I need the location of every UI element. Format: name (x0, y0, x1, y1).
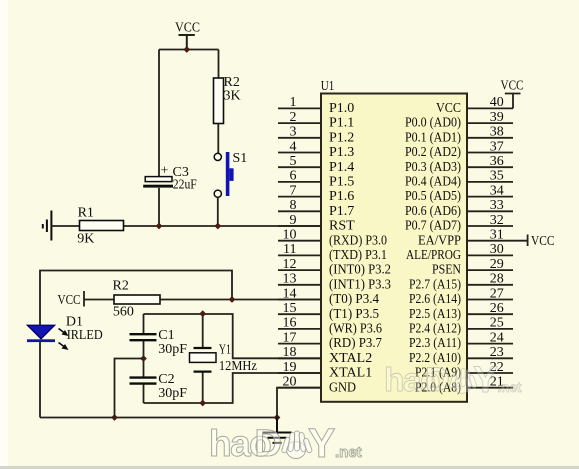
svg-text:+: + (161, 164, 169, 179)
crystal Y1 12MHz (202, 314, 204, 403)
svg-text:EA/VPP: EA/VPP (418, 233, 461, 248)
svg-text:P0.5 (AD5): P0.5 (AD5) (405, 189, 461, 204)
svg-text:4: 4 (290, 139, 297, 154)
svg-text:P2.4 (A12): P2.4 (A12) (409, 322, 461, 337)
resistor R2 560 (114, 295, 160, 304)
svg-text:XTAL1: XTAL1 (329, 366, 372, 381)
node RST/S1 junction (214, 223, 221, 230)
svg-text:P0.1 (AD1): P0.1 (AD1) (405, 130, 461, 145)
svg-text:(T0) P3.4: (T0) P3.4 (329, 292, 379, 307)
svg-text:30pF: 30pF (158, 386, 187, 401)
power VCC port (left) (84, 291, 114, 307)
wire bottom ground rail (40, 417, 277, 419)
svg-text:16: 16 (283, 316, 297, 331)
svg-text:(INT1) P3.3: (INT1) P3.3 (329, 277, 391, 292)
svg-text:560: 560 (113, 304, 134, 319)
svg-text:2: 2 (290, 110, 297, 125)
switch S1 (214, 153, 221, 160)
wire R2(560) to pin14 (160, 299, 321, 301)
svg-text:6: 6 (290, 169, 297, 184)
svg-text:24: 24 (490, 330, 504, 345)
svg-text:P2.3 (A11): P2.3 (A11) (409, 336, 461, 351)
wire C1/C2 midpoint to ground rail (115, 359, 144, 418)
svg-text:(RXD) P3.0: (RXD) P3.0 (329, 233, 387, 248)
svg-text:17: 17 (283, 330, 297, 345)
svg-text:P0.4 (AD4): P0.4 (AD4) (405, 175, 461, 190)
svg-text:5: 5 (290, 154, 297, 169)
node VCC top junction (183, 46, 190, 53)
wire VCC top horizontal (159, 49, 219, 51)
U1 right pin stubs 40-21 (467, 108, 513, 387)
node Y1 top junction (199, 310, 206, 317)
svg-text:XTAL2: XTAL2 (329, 351, 372, 366)
capacitor C3 22uF (158, 188, 160, 226)
svg-text:PSEN: PSEN (432, 263, 461, 278)
svg-text:IRLED: IRLED (67, 328, 103, 343)
svg-text:34: 34 (490, 183, 504, 198)
svg-text:29: 29 (490, 257, 504, 272)
svg-text:VCC: VCC (501, 79, 524, 94)
node Y1 bottom junction (199, 400, 206, 407)
node 560/LED-loop junction (229, 296, 236, 303)
svg-text:1: 1 (290, 95, 297, 110)
svg-text:GND: GND (329, 380, 356, 395)
svg-text:P2.5 (A13): P2.5 (A13) (409, 307, 461, 322)
svg-text:P1.1: P1.1 (329, 116, 354, 131)
svg-text:P1.5: P1.5 (329, 175, 354, 190)
svg-text:11: 11 (283, 242, 296, 257)
svg-text:33: 33 (490, 198, 504, 213)
svg-text:36: 36 (490, 154, 504, 169)
wire ground to R1 to RST pin9 (51, 225, 321, 227)
svg-text:12: 12 (283, 257, 297, 272)
wire left branch down to C3 (158, 50, 160, 178)
watermark instance (bottom) (209, 420, 362, 466)
wire right branch down to R2 (218, 50, 220, 79)
svg-text:(RD) P3.7: (RD) P3.7 (329, 336, 382, 351)
U1 left pin stubs 1-20 (278, 108, 321, 387)
svg-text:25: 25 (490, 316, 504, 331)
resistor R2 3K (214, 78, 224, 124)
svg-text:30: 30 (490, 242, 504, 257)
svg-text:(TXD) P3.1: (TXD) P3.1 (329, 248, 387, 263)
svg-text:23: 23 (490, 345, 504, 360)
svg-text:30pF: 30pF (158, 342, 187, 357)
svg-text:(T1) P3.5: (T1) P3.5 (329, 307, 379, 322)
svg-text:P0.0 (AD0): P0.0 (AD0) (405, 116, 461, 131)
wire XTAL1 (pin19) net (144, 373, 322, 403)
IC U1 body (321, 94, 467, 402)
resistor R1 9K (80, 221, 124, 231)
wire XTAL2 (pin18) net (144, 314, 322, 358)
svg-text:35: 35 (490, 169, 504, 184)
svg-text:12MHz: 12MHz (219, 359, 257, 374)
svg-text:VCC: VCC (175, 21, 200, 36)
node GND pin20 junction (274, 414, 281, 421)
node C1/C2 midpoint junction (140, 355, 147, 362)
svg-text:P0.6 (AD6): P0.6 (AD6) (405, 204, 461, 219)
svg-text:9K: 9K (77, 231, 94, 246)
svg-text:P1.7: P1.7 (329, 204, 354, 219)
watermark instance (faint, over U1) (384, 359, 522, 400)
svg-text:7: 7 (290, 183, 297, 198)
svg-text:38: 38 (490, 125, 504, 140)
svg-text:Y1: Y1 (219, 343, 231, 358)
svg-text:VCC: VCC (58, 293, 81, 308)
svg-text:37: 37 (490, 139, 504, 154)
svg-text:(INT0) P3.2: (INT0) P3.2 (329, 263, 391, 278)
svg-text:40: 40 (490, 95, 504, 110)
svg-text:R2: R2 (113, 279, 129, 294)
svg-text:P0.7 (AD7): P0.7 (AD7) (405, 219, 461, 234)
svg-text:32: 32 (490, 213, 504, 228)
svg-text:P0.2 (AD2): P0.2 (AD2) (405, 145, 461, 160)
svg-text:10: 10 (283, 228, 297, 243)
capacitor C1 30pF (143, 314, 145, 359)
svg-text:P1.6: P1.6 (329, 189, 354, 204)
svg-text:31: 31 (490, 228, 504, 243)
ground (bottom) symbol (263, 418, 292, 443)
svg-text:C2: C2 (158, 372, 174, 387)
svg-text:P2.7 (A15): P2.7 (A15) (409, 277, 461, 292)
ground (left, rotated earth) (43, 211, 52, 241)
node C1C2-mid to ground junction (111, 414, 118, 421)
svg-text:VCC: VCC (436, 101, 461, 116)
svg-text:P1.3: P1.3 (329, 145, 354, 160)
svg-text:S1: S1 (233, 151, 248, 166)
LED D1 IRLED (28, 325, 55, 339)
LED emission arrows (59, 329, 67, 335)
svg-text:26: 26 (490, 301, 504, 316)
svg-text:22uF: 22uF (173, 177, 197, 192)
svg-text:P2.6 (A14): P2.6 (A14) (409, 292, 461, 307)
svg-text:R1: R1 (78, 206, 94, 221)
svg-text:3: 3 (290, 125, 297, 140)
power VCC port (pin31 EA/VPP) (513, 235, 528, 247)
svg-text:3K: 3K (224, 89, 241, 104)
svg-text:28: 28 (490, 272, 504, 287)
svg-text:P0.3 (AD3): P0.3 (AD3) (405, 160, 461, 175)
wire LED loop top (40, 271, 232, 326)
svg-text:VCC: VCC (531, 234, 555, 249)
svg-text:ALE/PROG: ALE/PROG (406, 248, 461, 263)
svg-text:P1.0: P1.0 (329, 101, 354, 116)
wire S1 to RST net (217, 197, 219, 226)
svg-text:P1.2: P1.2 (329, 130, 354, 145)
svg-text:P1.4: P1.4 (329, 160, 354, 175)
wire GND pin 20 (277, 388, 321, 418)
svg-text:15: 15 (283, 301, 297, 316)
svg-text:U1: U1 (321, 79, 335, 94)
svg-text:13: 13 (283, 272, 297, 287)
svg-text:39: 39 (490, 110, 504, 125)
svg-text:RST: RST (329, 219, 355, 234)
node RST/C3 junction (156, 223, 163, 230)
svg-text:C1: C1 (158, 328, 174, 343)
svg-text:8: 8 (290, 198, 297, 213)
power VCC (top) symbol (179, 35, 195, 50)
svg-text:(WR) P3.6: (WR) P3.6 (329, 322, 382, 337)
power VCC (top right, pin40) (505, 94, 521, 109)
wire R2 to S1 (217, 124, 219, 154)
capacitor C2 30pF (143, 359, 145, 404)
svg-text:27: 27 (490, 286, 504, 301)
